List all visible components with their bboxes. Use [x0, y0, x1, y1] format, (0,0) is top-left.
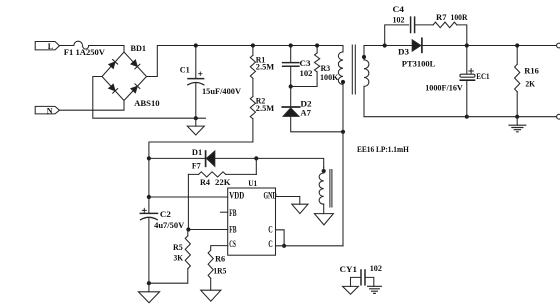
ground at C2/R5	[148, 283, 150, 292]
capacitor C2	[148, 197, 150, 213]
wire to C4	[385, 25, 409, 46]
ground under aux winding	[314, 214, 333, 225]
svg-text:3K: 3K	[174, 252, 184, 262]
bridge diode top-right	[131, 60, 140, 69]
capacitor C3	[290, 46, 292, 63]
resistor R7	[433, 22, 457, 28]
wire L to fuse	[59, 45, 74, 47]
aux core	[330, 170, 332, 208]
node D1/R4	[254, 156, 258, 160]
svg-text:CY1: CY1	[340, 264, 358, 274]
svg-text:C: C	[268, 239, 273, 249]
node C1 top	[194, 43, 198, 47]
node R16 bottom	[515, 115, 519, 119]
resistor R4	[199, 172, 226, 177]
wire R1-R2	[252, 78, 254, 96]
svg-text:100R: 100R	[451, 12, 469, 22]
svg-text:C1: C1	[180, 65, 190, 75]
node EC1 bottom	[465, 115, 469, 119]
ground triangle CY1	[343, 286, 359, 294]
svg-text:GND: GND	[264, 190, 278, 200]
resistor R6	[208, 250, 213, 278]
aux winding	[322, 169, 326, 173]
svg-text:C3: C3	[300, 58, 311, 68]
secondary top rail to D3	[364, 45, 412, 47]
wire GND pin to ground	[276, 197, 300, 205]
wire R4 right to D1 node	[255, 158, 257, 174]
svg-text:CS: CS	[229, 239, 236, 249]
wire C upper pin	[276, 230, 285, 246]
wire R4 left down to FB node	[187, 174, 189, 229]
svg-text:102: 102	[300, 68, 313, 78]
primary phase dot	[341, 80, 345, 84]
resistor R16	[516, 46, 518, 65]
svg-text:102: 102	[370, 263, 382, 273]
svg-text:C: C	[268, 224, 273, 234]
svg-text:A7: A7	[300, 107, 311, 117]
svg-text:R4: R4	[200, 177, 211, 187]
capacitor EC1	[466, 46, 468, 75]
fuse F1	[74, 41, 89, 49]
resistor R1	[252, 46, 254, 56]
svg-text:100K: 100K	[320, 72, 339, 82]
svg-text:D1: D1	[192, 147, 202, 157]
svg-text:EC1: EC1	[476, 71, 489, 81]
CY1 right lead to earth	[365, 277, 374, 286]
svg-text:1000F/16V: 1000F/16V	[425, 83, 463, 93]
node C4 branch	[383, 43, 387, 47]
svg-text:FB: FB	[229, 224, 236, 234]
bridge diode top-left	[108, 60, 117, 69]
svg-text:C4: C4	[393, 4, 405, 14]
wire FB2	[188, 229, 227, 231]
node VDD/C2	[147, 195, 151, 199]
svg-text:D3: D3	[398, 47, 409, 57]
wire D1 row to aux winding	[256, 158, 323, 167]
svg-text:R5: R5	[173, 242, 183, 252]
svg-text:4u7/50V: 4u7/50V	[154, 220, 185, 230]
svg-text:F1 1A250V: F1 1A250V	[64, 47, 106, 57]
svg-text:2K: 2K	[525, 79, 535, 89]
wire fuse to bridge top	[89, 46, 124, 53]
svg-text:ABS10: ABS10	[134, 98, 159, 108]
terminal N	[35, 106, 59, 114]
bridge diode bottom-right	[131, 84, 140, 93]
node C1 bottom	[194, 116, 198, 120]
transformer primary winding	[342, 46, 344, 52]
wire CS to R6	[211, 246, 228, 251]
svg-text:VDD: VDD	[229, 190, 244, 200]
node C3/R3/D2	[289, 84, 293, 88]
bridge diode bottom-left	[108, 84, 117, 93]
resistor R5	[187, 230, 189, 236]
svg-text:N: N	[47, 106, 53, 115]
wire C4 to R7	[415, 24, 434, 26]
ground at R6	[201, 290, 221, 301]
diode D3	[412, 40, 421, 51]
svg-text:R6: R6	[215, 254, 226, 264]
node D1/R2/VDD vertical	[147, 156, 151, 160]
svg-text:2.5M: 2.5M	[256, 62, 274, 72]
node C2/R5 ground	[147, 281, 151, 285]
earth ground at R16	[516, 117, 518, 126]
diode D2	[290, 87, 292, 107]
wire C lower pin to drain	[276, 245, 344, 247]
rail D3 to output	[422, 45, 557, 47]
svg-text:R7: R7	[436, 12, 447, 22]
terminal L	[35, 42, 59, 50]
wire VDD	[149, 196, 228, 198]
resistor R3	[316, 46, 318, 54]
node C3 top	[289, 43, 293, 47]
svg-text:PT3100L: PT3100L	[402, 58, 436, 68]
secondary phase dot	[362, 55, 366, 59]
svg-text:22K: 22K	[215, 177, 231, 187]
bridge rectifier BD1 diamond	[102, 52, 147, 101]
node C pins	[282, 244, 286, 248]
transformer secondary winding	[363, 46, 365, 60]
node FB/R4/R5	[186, 227, 190, 231]
output terminal +	[557, 43, 560, 48]
CY1 left lead to ground	[351, 277, 362, 286]
svg-text:102: 102	[393, 14, 405, 24]
diode D1	[149, 157, 206, 159]
svg-text:2.5M: 2.5M	[256, 103, 274, 113]
earth ground CY1	[368, 286, 382, 293]
IC U1 box	[228, 188, 276, 255]
wire primary bottom to C pins	[342, 85, 344, 246]
capacitor C4	[410, 17, 412, 32]
output terminal -	[557, 114, 560, 119]
svg-text:C2: C2	[160, 209, 171, 219]
wire D1 node down to VDD node	[148, 158, 150, 197]
svg-text:F7: F7	[192, 160, 201, 170]
node R3 top	[315, 43, 319, 47]
capacitor C1	[195, 46, 197, 79]
node R16 top	[515, 43, 519, 47]
node R1 top	[251, 43, 255, 47]
wire R2 bottom to D1 node	[149, 119, 253, 159]
svg-text:FB: FB	[229, 208, 236, 218]
node EC1 top	[465, 43, 469, 47]
resistor R2	[250, 97, 255, 119]
node D2 anode / drain	[341, 130, 345, 134]
secondary bottom rail	[364, 116, 557, 118]
svg-text:EE16 LP:1.1mH: EE16 LP:1.1mH	[357, 144, 409, 154]
transformer core	[352, 45, 355, 94]
wire bridge right corner to DC+ rail	[147, 46, 344, 77]
svg-text:L: L	[48, 42, 53, 51]
svg-text:U1: U1	[248, 178, 257, 188]
ground at GND pin	[292, 204, 308, 213]
svg-text:15uF/400V: 15uF/400V	[202, 86, 242, 96]
svg-text:1R5: 1R5	[213, 266, 226, 276]
wire R7 to rail	[457, 25, 467, 46]
svg-text:R16: R16	[524, 66, 539, 76]
ground under C1	[195, 118, 197, 126]
svg-text:BD1: BD1	[131, 43, 147, 53]
wire N to bridge bottom	[59, 101, 124, 111]
wire bridge left corner to primary ground bus	[93, 77, 206, 119]
